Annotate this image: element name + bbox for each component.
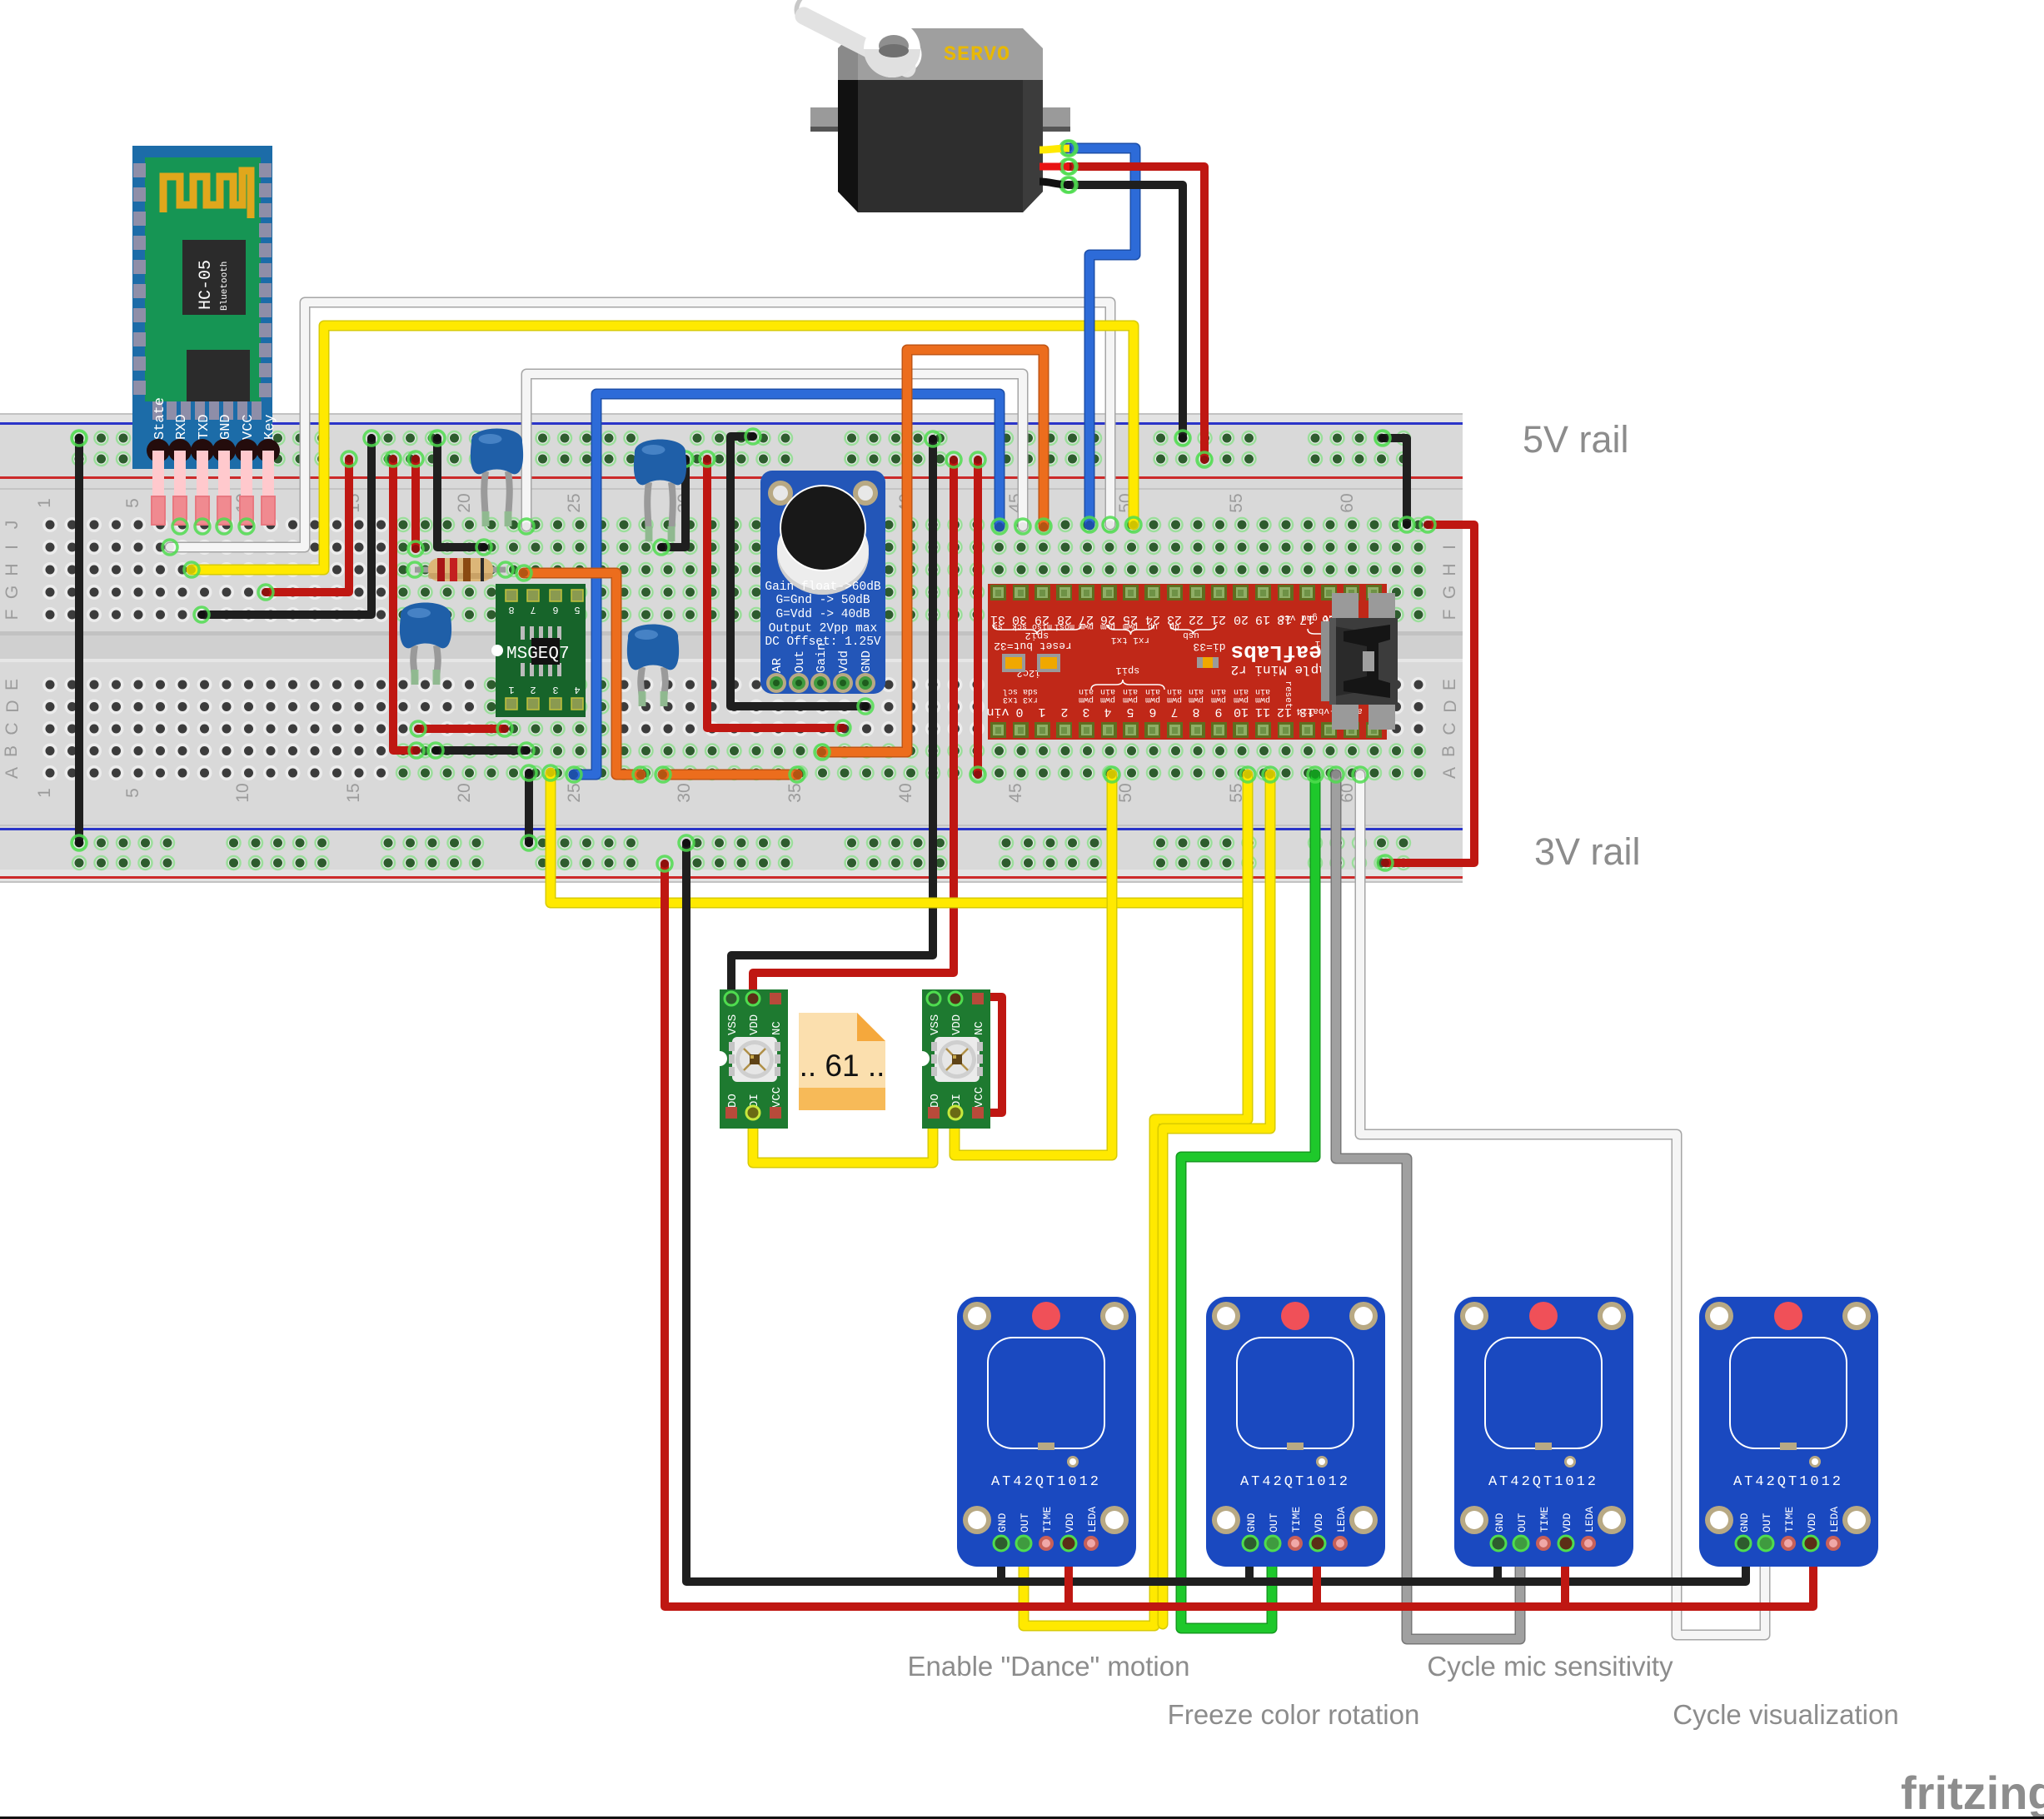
wire W12 red +rail to row A bbox=[970, 452, 985, 782]
mini-USB connector J1 bbox=[1332, 593, 1359, 623]
svg-text:LEDA: LEDA bbox=[1828, 1507, 1841, 1532]
svg-text:TIME: TIME bbox=[1290, 1507, 1303, 1532]
svg-text:.. 61 ..: .. 61 .. bbox=[800, 1049, 885, 1083]
svg-text:4: 4 bbox=[574, 684, 580, 695]
svg-text:Enable "Dance" motion: Enable "Dance" motion bbox=[908, 1651, 1190, 1682]
svg-text:5: 5 bbox=[123, 498, 142, 508]
wire W35 black ground chain to sensors bbox=[679, 835, 1746, 1582]
svg-text:6: 6 bbox=[552, 604, 558, 615]
svg-text:DO: DO bbox=[726, 1094, 740, 1108]
servo M1 bbox=[792, 0, 1077, 212]
svg-text:21: 21 bbox=[1211, 612, 1226, 626]
svg-text:OUT: OUT bbox=[1019, 1513, 1031, 1532]
touch sensor S3 AT42QT1012 bbox=[1454, 1297, 1633, 1567]
wire W31 red LED2 VDD-VCC loop bbox=[956, 997, 1002, 1113]
svg-text:F: F bbox=[2, 610, 22, 620]
wire W27 yellow row A col55 to sensor1 OUT bbox=[1024, 767, 1255, 1626]
wire W34 white row A col60 to sensor4 OUT bbox=[1353, 767, 1765, 1635]
svg-text:pwm: pwm bbox=[1145, 695, 1160, 704]
wire W25 black row A to bottom -rail bbox=[521, 765, 536, 850]
svg-text:2: 2 bbox=[530, 684, 536, 695]
svg-text:VSS: VSS bbox=[929, 1014, 942, 1035]
svg-text:15: 15 bbox=[344, 783, 363, 802]
capacitor C4 bbox=[627, 624, 679, 706]
svg-text:Maple Mini r2: Maple Mini r2 bbox=[1231, 662, 1335, 677]
wire W28 yellow row A col56 down bbox=[1163, 767, 1278, 1624]
svg-text:AT42QT1012: AT42QT1012 bbox=[1488, 1474, 1598, 1490]
svg-text:LEDA: LEDA bbox=[1086, 1507, 1099, 1532]
wire W20 black servo gnd to -rail bbox=[1060, 177, 1190, 446]
svg-text:VCC: VCC bbox=[770, 1087, 784, 1108]
svg-text:25: 25 bbox=[565, 493, 584, 512]
svg-text:AT42QT1012: AT42QT1012 bbox=[991, 1474, 1101, 1490]
wire W36b red stub sensor2 VDD bbox=[1313, 1543, 1321, 1607]
svg-text:8: 8 bbox=[1192, 705, 1199, 719]
svg-text:SERVO: SERVO bbox=[944, 42, 1010, 67]
wire W22 red row J col63 to bottom +rail bbox=[1378, 517, 1474, 870]
svg-text:Output 2Vpp max: Output 2Vpp max bbox=[769, 622, 878, 635]
svg-text:OUT: OUT bbox=[1761, 1513, 1773, 1532]
svg-text:pwm: pwm bbox=[1211, 695, 1226, 704]
svg-text:B: B bbox=[2, 745, 21, 757]
wire W26 yellow row A col23 long bbox=[543, 765, 1244, 903]
svg-text:Vdd: Vdd bbox=[837, 650, 851, 673]
wire W2 white HC-05 to col50 bbox=[162, 302, 1118, 555]
svg-text:TIME: TIME bbox=[1538, 1507, 1551, 1532]
wire W23 red row C jumper bbox=[411, 721, 512, 736]
svg-text:G: G bbox=[2, 586, 22, 599]
HC-05 pin Key bbox=[257, 439, 280, 462]
svg-text:5: 5 bbox=[574, 604, 580, 615]
resistor R1 bbox=[407, 558, 513, 581]
svg-text:pwm: pwm bbox=[1255, 695, 1270, 704]
svg-text:G=Vdd -> 40dB: G=Vdd -> 40dB bbox=[775, 608, 870, 621]
svg-text:reset but=32: reset but=32 bbox=[994, 640, 1072, 652]
wire W35b black stub sensor2 GND bbox=[1245, 1543, 1254, 1582]
svg-text:State: State bbox=[152, 397, 168, 440]
svg-text:MSGEQ7: MSGEQ7 bbox=[506, 645, 570, 664]
svg-text:di=33: di=33 bbox=[1193, 640, 1225, 653]
svg-text:Cycle visualization: Cycle visualization bbox=[1673, 1699, 1898, 1730]
svg-text:GND: GND bbox=[996, 1513, 1009, 1532]
touch sensor S2 AT42QT1012 bbox=[1206, 1297, 1385, 1567]
svg-text:1: 1 bbox=[35, 788, 54, 798]
svg-text:22: 22 bbox=[1189, 612, 1204, 626]
svg-text:DO: DO bbox=[929, 1094, 942, 1108]
capacitor C2 bbox=[634, 439, 686, 541]
wire W36a red stub sensor1 VDD bbox=[1064, 1543, 1073, 1607]
svg-text:1: 1 bbox=[508, 684, 514, 695]
svg-text:rx1 tx1: rx1 tx1 bbox=[1111, 635, 1150, 645]
svg-text:Bluetooth: Bluetooth bbox=[220, 262, 230, 311]
svg-text:sda scl: sda scl bbox=[1003, 686, 1038, 696]
wire W11 red +rail to LED1 VDD bbox=[753, 452, 961, 999]
svg-text:VDD: VDD bbox=[748, 1014, 761, 1035]
wire W35c black stub sensor3 GND bbox=[1493, 1543, 1502, 1582]
wire W35a black stub sensor1 GND bbox=[997, 1543, 1005, 1582]
svg-text:VCC: VCC bbox=[241, 414, 257, 440]
wire W21 black -rail to row J col62 bbox=[1375, 431, 1414, 532]
wire W8 black -rail to row I bbox=[430, 431, 491, 555]
svg-text:GND: GND bbox=[1245, 1513, 1258, 1532]
svg-text:VDD: VDD bbox=[950, 1014, 964, 1035]
svg-text:55: 55 bbox=[1227, 493, 1246, 512]
microphone breakout U3 bbox=[760, 471, 885, 694]
HC-05 pin State bbox=[147, 439, 170, 462]
svg-text:fritzing: fritzing bbox=[1901, 1767, 2044, 1819]
svg-text:Freeze color rotation: Freeze color rotation bbox=[1168, 1699, 1420, 1730]
LeafLabs Maple Mini U4 bbox=[986, 584, 1398, 740]
svg-text:25: 25 bbox=[565, 783, 584, 802]
HC-05 pin VCC bbox=[235, 439, 258, 462]
wire W29 yellow LED1 DI link bbox=[753, 1113, 933, 1163]
wire W1 black left rail jumper bbox=[72, 431, 87, 850]
WS2812 LED breakout LED2 bbox=[915, 989, 990, 1129]
svg-text:I: I bbox=[2, 545, 22, 550]
wire W36 red V+ chain to sensors bbox=[657, 856, 1813, 1607]
svg-text:3V rail: 3V rail bbox=[1534, 830, 1641, 873]
svg-text:A: A bbox=[2, 767, 22, 779]
svg-text:usb: usb bbox=[1183, 630, 1199, 640]
capacitor C3 bbox=[400, 602, 451, 685]
svg-text:Gain float->60dB: Gain float->60dB bbox=[765, 581, 881, 594]
svg-text:Out: Out bbox=[793, 650, 807, 673]
svg-text:1: 1 bbox=[35, 498, 54, 508]
svg-text:pwm: pwm bbox=[1123, 695, 1138, 704]
svg-text:20: 20 bbox=[455, 493, 474, 512]
svg-text:3: 3 bbox=[1082, 705, 1089, 719]
wire W6 red +rail to row B bbox=[386, 451, 424, 758]
wire W4 red col11 G to +rail bbox=[258, 451, 356, 600]
svg-text:A: A bbox=[1440, 767, 1459, 779]
servo lead yellow bbox=[1039, 148, 1069, 150]
wire W19 red servo V+ to +rail bbox=[1060, 159, 1212, 467]
svg-text:HC-05: HC-05 bbox=[197, 260, 216, 310]
svg-text:AR: AR bbox=[770, 658, 785, 673]
svg-text:AT42QT1012: AT42QT1012 bbox=[1240, 1474, 1350, 1490]
svg-text:E: E bbox=[1440, 679, 1459, 690]
svg-text:10: 10 bbox=[233, 783, 252, 802]
svg-text:C: C bbox=[1440, 722, 1459, 735]
svg-text:OUT: OUT bbox=[1268, 1513, 1280, 1532]
MSGEQ7 breakout U2 bbox=[491, 584, 586, 717]
svg-text:7: 7 bbox=[1170, 705, 1178, 719]
wire W5 black col8 F to -rail bbox=[194, 431, 379, 622]
wire W18 blue servo signal to row J col48 bbox=[1060, 141, 1135, 532]
svg-text:0: 0 bbox=[1015, 705, 1023, 719]
svg-text:F: F bbox=[1440, 610, 1459, 620]
HC-05 pin TXD bbox=[191, 439, 214, 462]
svg-text:2: 2 bbox=[1060, 705, 1068, 719]
svg-text:VDD: VDD bbox=[1806, 1513, 1818, 1532]
wire W7 red +rail to row I bbox=[408, 451, 423, 556]
svg-text:30: 30 bbox=[675, 783, 694, 802]
breadboard bbox=[0, 413, 1463, 883]
svg-text:GND: GND bbox=[860, 650, 874, 673]
svg-text:pwm: pwm bbox=[1234, 695, 1249, 704]
wire W30 yellow LED2 DI to row A col49 bbox=[955, 767, 1119, 1155]
svg-text:Cycle mic sensitivity: Cycle mic sensitivity bbox=[1427, 1651, 1673, 1682]
HC-05 pin GND bbox=[212, 439, 236, 462]
svg-text:H: H bbox=[2, 563, 22, 576]
svg-text:H: H bbox=[1440, 563, 1459, 576]
svg-text:GND: GND bbox=[1738, 1513, 1751, 1532]
svg-text:VCC: VCC bbox=[973, 1087, 986, 1108]
servo lead red bbox=[1039, 163, 1069, 171]
svg-text:VDD: VDD bbox=[1064, 1513, 1076, 1532]
wire W9 black -rail to mic GND col37 bbox=[730, 429, 873, 714]
wire W24 black row B jumper bbox=[428, 743, 534, 758]
WS2812 LED breakout LED1 bbox=[712, 989, 788, 1129]
wire W16 orange row H col22 to row A bbox=[516, 566, 648, 782]
svg-text:TIME: TIME bbox=[1041, 1507, 1054, 1532]
svg-text:5: 5 bbox=[123, 788, 142, 798]
svg-text:6: 6 bbox=[1149, 705, 1156, 719]
svg-text:D: D bbox=[3, 700, 22, 712]
bottom border line bbox=[0, 1817, 2044, 1819]
svg-text:pwm: pwm bbox=[1189, 695, 1204, 704]
svg-text:7: 7 bbox=[530, 604, 536, 615]
wire W38 red +rail col31 to mic Vdd col36 bbox=[700, 451, 850, 735]
svg-text:OUT: OUT bbox=[1516, 1513, 1528, 1532]
svg-text:45: 45 bbox=[1006, 783, 1025, 802]
svg-text:NC: NC bbox=[973, 1021, 986, 1035]
svg-text:10: 10 bbox=[1234, 705, 1249, 719]
capacitor C1 bbox=[471, 428, 523, 526]
svg-text:VSS: VSS bbox=[726, 1014, 740, 1035]
svg-text:8: 8 bbox=[508, 604, 514, 615]
HC-05 bluetooth module U1 bbox=[132, 146, 280, 534]
svg-text:50: 50 bbox=[1116, 783, 1135, 802]
wire W17 orange row A col28 to col34 bbox=[656, 767, 805, 782]
svg-text:G=Gnd -> 50dB: G=Gnd -> 50dB bbox=[775, 594, 870, 607]
svg-text:LEDA: LEDA bbox=[1583, 1507, 1596, 1532]
touch sensor S4 AT42QT1012 bbox=[1699, 1297, 1878, 1567]
svg-text:VDD: VDD bbox=[1313, 1513, 1325, 1532]
svg-text:35: 35 bbox=[785, 783, 805, 802]
svg-text:spi1: spi1 bbox=[1116, 665, 1140, 676]
wire W33 gray row A col59 to sensor3 OUT bbox=[1329, 767, 1520, 1639]
wire W10 black -rail col41 to LED1 VSS bbox=[731, 431, 940, 999]
wire W36c red stub sensor3 VDD bbox=[1561, 1543, 1569, 1607]
svg-text:60: 60 bbox=[1338, 493, 1357, 512]
svg-text:20: 20 bbox=[1234, 612, 1249, 626]
touch sensor S1 AT42QT1012 bbox=[957, 1297, 1136, 1567]
svg-text:G: G bbox=[1440, 586, 1459, 599]
svg-text:B: B bbox=[1439, 745, 1458, 757]
svg-text:1: 1 bbox=[1038, 705, 1045, 719]
svg-text:20: 20 bbox=[455, 783, 474, 802]
wire W15 orange row J col47 to row B col35 bbox=[815, 350, 1051, 760]
svg-text:TIME: TIME bbox=[1783, 1507, 1796, 1532]
svg-text:VDD: VDD bbox=[1561, 1513, 1573, 1532]
svg-text:Gain: Gain bbox=[815, 643, 829, 673]
wire W37 black +rail col30 to row I col28 bbox=[654, 451, 693, 555]
svg-text:pwm: pwm bbox=[1167, 695, 1182, 704]
svg-text:C: C bbox=[2, 722, 22, 735]
svg-text:19: 19 bbox=[1255, 612, 1270, 626]
svg-text:RXD: RXD bbox=[174, 414, 190, 440]
note .. 61 .. bbox=[799, 1013, 885, 1110]
svg-text:TXD: TXD bbox=[197, 414, 212, 440]
svg-text:4: 4 bbox=[1104, 705, 1111, 719]
svg-text:5V rail: 5V rail bbox=[1523, 418, 1629, 461]
svg-text:9: 9 bbox=[1214, 705, 1222, 719]
svg-text:E: E bbox=[2, 679, 22, 690]
svg-text:J: J bbox=[2, 521, 22, 530]
svg-text:I: I bbox=[1440, 545, 1459, 550]
svg-text:D: D bbox=[1441, 700, 1460, 712]
svg-text:LeafLabs: LeafLabs bbox=[1231, 640, 1335, 665]
svg-text:11: 11 bbox=[1255, 705, 1270, 719]
svg-text:reset: reset bbox=[1283, 680, 1293, 708]
svg-text:GND: GND bbox=[218, 414, 234, 440]
servo lead black bbox=[1039, 182, 1069, 185]
svg-text:GND: GND bbox=[1493, 1513, 1506, 1532]
svg-text:Key: Key bbox=[262, 414, 278, 440]
svg-text:LEDA: LEDA bbox=[1335, 1507, 1348, 1532]
wire W13 blue row J col45 to row A col25 bbox=[566, 394, 1007, 782]
svg-text:spi2: spi2 bbox=[1025, 630, 1049, 641]
svg-text:AT42QT1012: AT42QT1012 bbox=[1733, 1474, 1843, 1490]
svg-text:3: 3 bbox=[552, 684, 558, 695]
HC-05 pin RXD bbox=[168, 439, 192, 462]
svg-text:40: 40 bbox=[896, 783, 915, 802]
svg-text:pwm: pwm bbox=[1079, 695, 1094, 704]
svg-text:NC: NC bbox=[770, 1021, 784, 1035]
svg-text:5: 5 bbox=[1126, 705, 1134, 719]
wire W3 yellow HC-05 to col51 bbox=[184, 326, 1141, 577]
wire W14 white row J col22 to row J col46 bbox=[519, 374, 1030, 534]
svg-text:vin: vin bbox=[986, 705, 1009, 719]
wire W32 green row A col58 to sensor2 OUT bbox=[1181, 767, 1323, 1628]
svg-text:pwm: pwm bbox=[1100, 695, 1115, 704]
